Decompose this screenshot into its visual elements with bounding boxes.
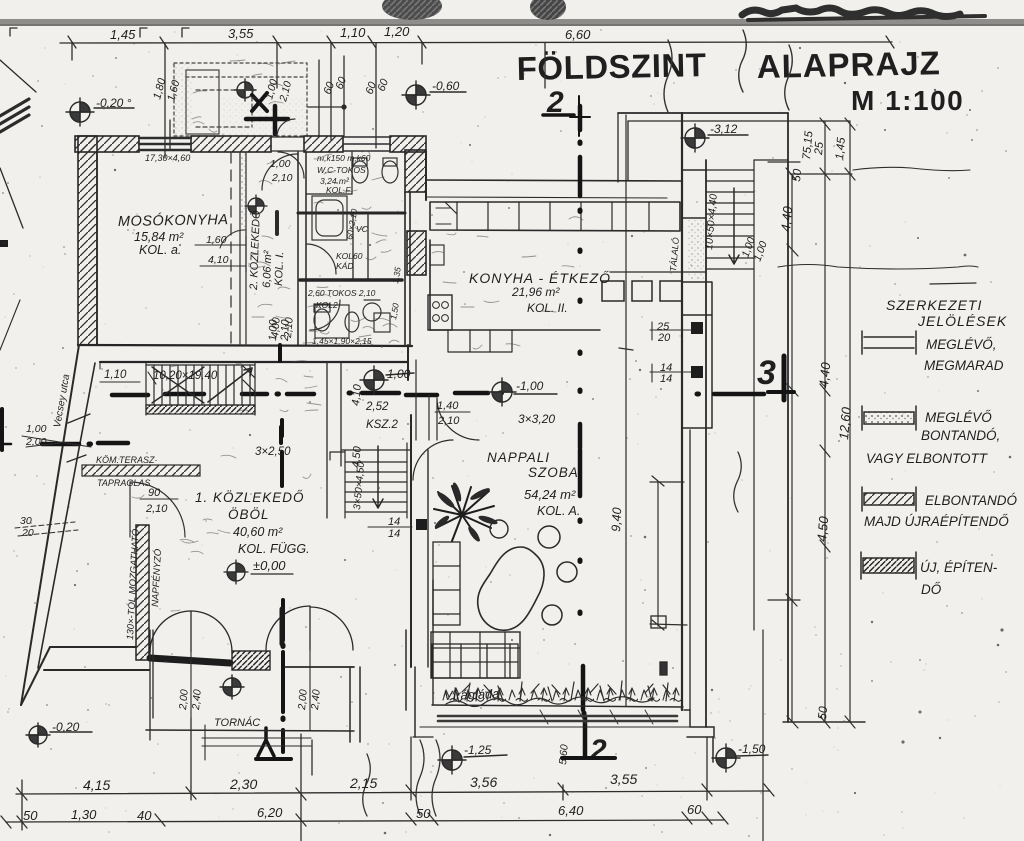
svg-text:14: 14 [388, 528, 400, 540]
svg-text:-1,50: -1,50 [738, 742, 766, 756]
svg-text:2,40: 2,40 [309, 689, 323, 712]
svg-text:-1,25: -1,25 [464, 743, 492, 757]
svg-text:NAPPALI: NAPPALI [487, 450, 550, 465]
svg-text:40: 40 [137, 808, 152, 823]
svg-text:4,50: 4,50 [814, 515, 831, 542]
svg-text:1,00: 1,00 [270, 158, 291, 170]
svg-text:m,k150 m,k60: m,k150 m,k60 [317, 153, 371, 163]
svg-text:20: 20 [657, 332, 671, 344]
svg-text:2,60 TOKOS 2,10: 2,60 TOKOS 2,10 [307, 288, 376, 298]
svg-text:60: 60 [687, 802, 702, 817]
svg-text:50: 50 [815, 705, 830, 720]
svg-text:1,10: 1,10 [340, 25, 366, 40]
svg-text:KOL. II.: KOL. II. [527, 301, 568, 315]
svg-text:-1,00: -1,00 [516, 379, 544, 393]
svg-text:50: 50 [791, 168, 804, 182]
svg-text:20: 20 [21, 527, 34, 539]
svg-text:KOL60: KOL60 [336, 251, 363, 261]
svg-text:6,60: 6,60 [565, 27, 591, 42]
svg-text:KOL. I.: KOL. I. [273, 251, 286, 286]
svg-text:1,45: 1,45 [110, 27, 136, 42]
svg-text:±0,00: ±0,00 [253, 558, 286, 573]
svg-text:3: 3 [757, 354, 776, 392]
svg-text:Vírágláda: Vírágláda [444, 686, 500, 703]
svg-text:2,10: 2,10 [282, 317, 296, 340]
svg-text:9,40: 9,40 [609, 507, 624, 532]
svg-text:2,10: 2,10 [271, 172, 293, 184]
svg-text:2,10: 2,10 [437, 415, 460, 427]
svg-text:30: 30 [20, 515, 32, 527]
svg-text:SZOBA: SZOBA [528, 465, 579, 480]
svg-text:-3,12: -3,12 [710, 122, 738, 136]
svg-text:1. KÖZLEKEDŐ: 1. KÖZLEKEDŐ [195, 490, 305, 505]
svg-text:54,24 m²: 54,24 m² [524, 487, 576, 502]
svg-text:90: 90 [148, 487, 161, 499]
svg-text:KÖM.TERASZ·: KÖM.TERASZ· [96, 455, 158, 465]
svg-text:1,40: 1,40 [437, 400, 459, 412]
svg-text:3×2,50: 3×2,50 [255, 446, 291, 458]
svg-text:14: 14 [388, 516, 400, 528]
svg-text:M 1:100: M 1:100 [851, 85, 964, 116]
svg-text:4,15: 4,15 [83, 777, 110, 793]
svg-text:MEGLÉVŐ: MEGLÉVŐ [925, 410, 992, 425]
svg-text:ÚJ, ÉPÍTEN-: ÚJ, ÉPÍTEN- [920, 560, 998, 575]
svg-text:MOSÓKONYHA: MOSÓKONYHA [118, 211, 229, 230]
svg-text:1,10: 1,10 [104, 369, 127, 381]
svg-text:5,60: 5,60 [557, 744, 571, 766]
svg-text:MAJD ÚJRAÉPÍTENDŐ: MAJD ÚJRAÉPÍTENDŐ [864, 514, 1009, 529]
svg-text:1,00: 1,00 [26, 423, 47, 435]
svg-text:4,10: 4,10 [208, 254, 229, 266]
svg-text:MEGMARAD: MEGMARAD [924, 358, 1004, 373]
svg-text:25: 25 [813, 141, 826, 156]
svg-text:ELBONTANDÓ: ELBONTANDÓ [925, 493, 1018, 508]
svg-text:ALAPRAJZ: ALAPRAJZ [756, 44, 941, 85]
svg-text:40,60 m²: 40,60 m² [233, 525, 283, 539]
svg-text:1,20: 1,20 [384, 24, 410, 39]
svg-text:KOL2: KOL2 [316, 300, 338, 310]
svg-text:MEGLÉVŐ,: MEGLÉVŐ, [926, 337, 997, 352]
svg-text:3,55: 3,55 [228, 26, 254, 41]
svg-text:-0,60: -0,60 [432, 79, 460, 93]
svg-text:1,45: 1,45 [834, 136, 848, 160]
svg-text:10,20×19,40: 10,20×19,40 [153, 370, 218, 382]
svg-text:2,30: 2,30 [229, 776, 257, 792]
svg-text:17,30×4,60: 17,30×4,60 [145, 153, 190, 163]
svg-text:75,15: 75,15 [801, 130, 816, 160]
svg-text:50: 50 [23, 808, 38, 823]
svg-text:VAGY ELBONTOTT: VAGY ELBONTOTT [866, 451, 989, 466]
svg-text:4,10: 4,10 [350, 383, 364, 406]
svg-text:12,60: 12,60 [836, 406, 854, 440]
svg-text:15,84 m²: 15,84 m² [134, 230, 184, 244]
svg-text:KOL. a.: KOL. a. [139, 243, 181, 257]
svg-text:1,00: 1,00 [387, 367, 411, 381]
svg-text:BONTANDÓ,: BONTANDÓ, [921, 428, 1000, 443]
svg-text:2,00: 2,00 [177, 689, 191, 712]
svg-text:TORNÁC: TORNÁC [214, 716, 260, 729]
svg-text:6,20: 6,20 [257, 805, 283, 820]
svg-text:2,00: 2,00 [296, 689, 310, 712]
svg-text:ÖBÖL: ÖBÖL [228, 507, 270, 522]
svg-text:KOL. A.: KOL. A. [537, 504, 580, 518]
svg-text:1,60: 1,60 [206, 234, 227, 246]
svg-text:-0,20: -0,20 [52, 720, 80, 734]
svg-text:JELÖLÉSEK: JELÖLÉSEK [917, 312, 1007, 329]
svg-text:4,40: 4,40 [816, 361, 833, 388]
svg-text:2,52: 2,52 [365, 401, 389, 413]
svg-text:1,30: 1,30 [71, 807, 97, 822]
svg-text:-0,20 °: -0,20 ° [96, 96, 132, 110]
svg-text:SZERKEZETI: SZERKEZETI [886, 297, 982, 313]
svg-text:KÁD: KÁD [336, 261, 353, 271]
svg-text:2,40: 2,40 [190, 689, 204, 712]
svg-text:3,55: 3,55 [610, 771, 637, 787]
svg-text:4,00: 4,00 [269, 317, 283, 339]
svg-text:2,10: 2,10 [145, 503, 168, 515]
svg-text:6,40: 6,40 [558, 803, 584, 818]
svg-text:14: 14 [660, 373, 672, 385]
svg-text:3,56: 3,56 [470, 774, 497, 790]
svg-text:3×3,20: 3×3,20 [518, 412, 555, 426]
svg-text:KSZ.2: KSZ.2 [366, 419, 399, 431]
svg-text:DŐ: DŐ [921, 582, 942, 597]
svg-text:2,15: 2,15 [349, 775, 377, 791]
svg-text:KOL.F: KOL.F [326, 185, 351, 195]
svg-text:4,40: 4,40 [778, 205, 795, 232]
svg-text:21,96 m²: 21,96 m² [511, 285, 560, 299]
svg-text:50: 50 [416, 806, 431, 821]
svg-text:KONYHA - ÉTKEZŐ: KONYHA - ÉTKEZŐ [469, 270, 611, 286]
